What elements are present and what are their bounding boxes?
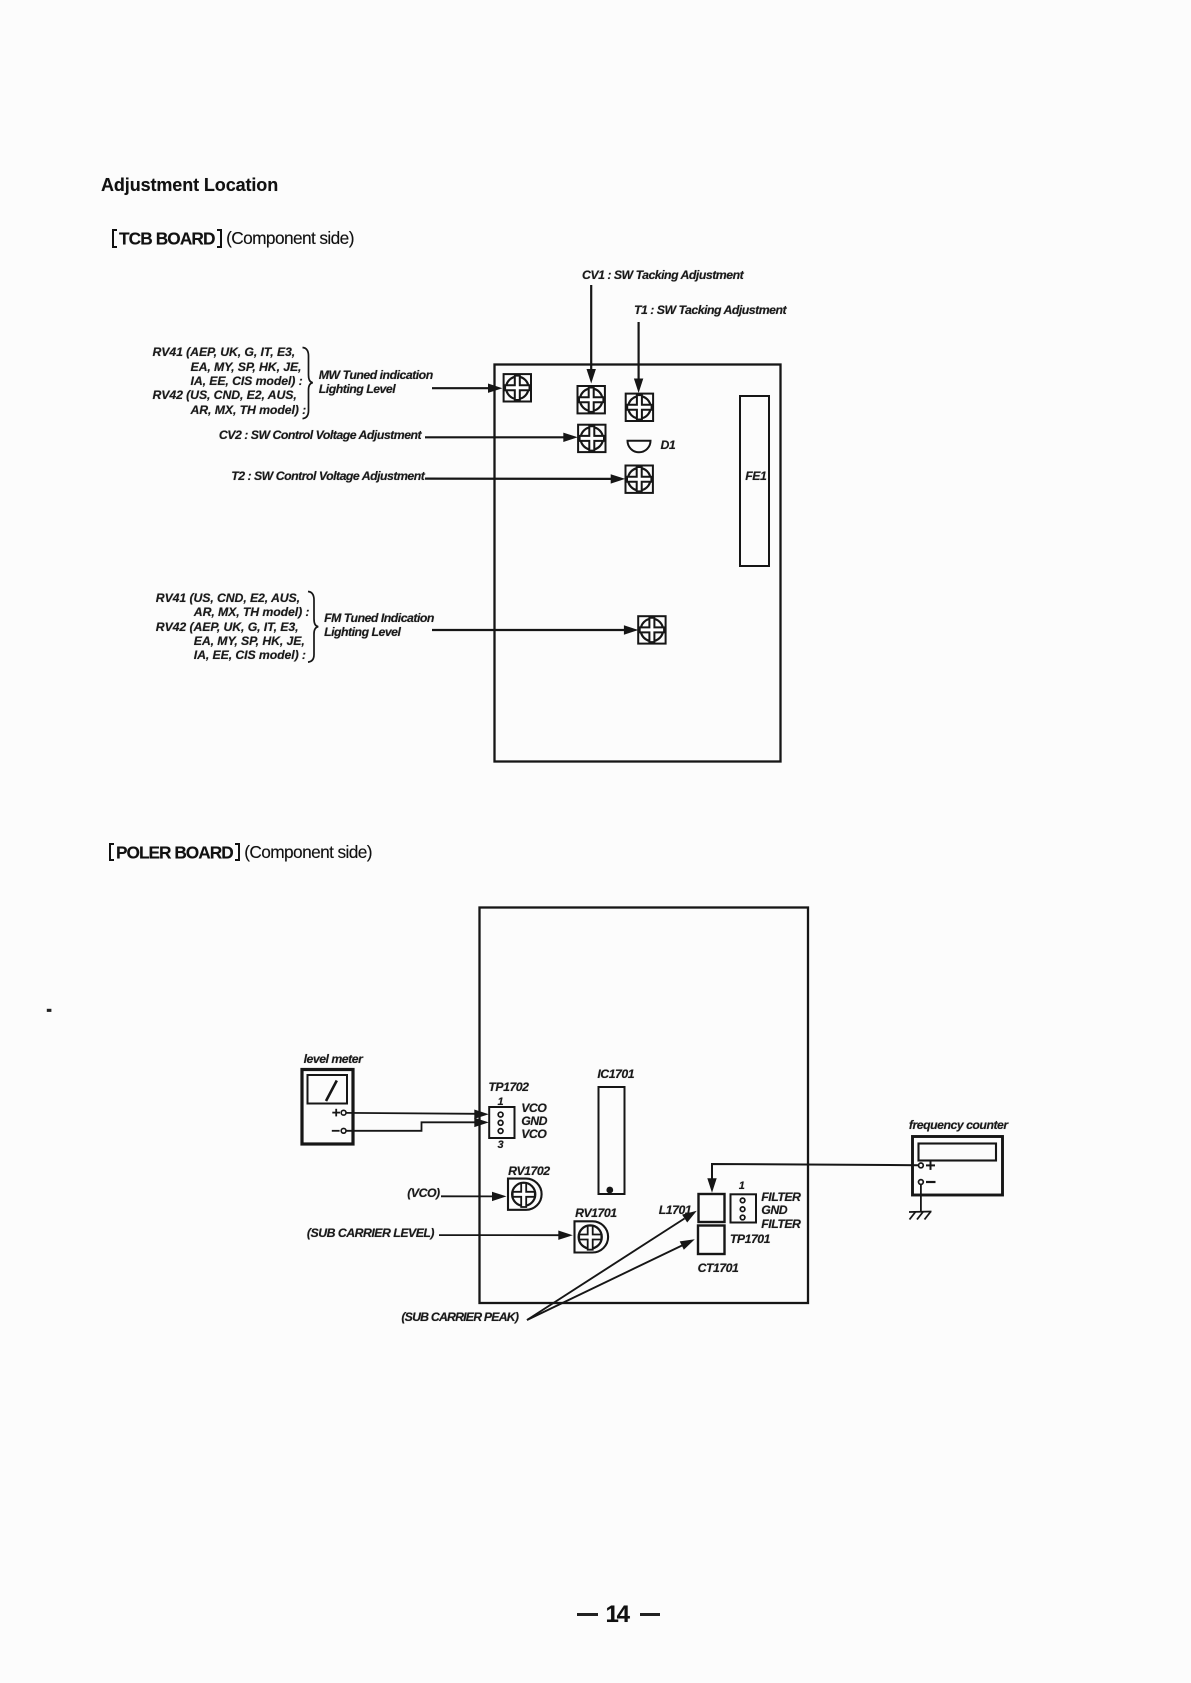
label RV1701	[575, 1206, 616, 1220]
title Adjustment Location	[101, 176, 278, 194]
label IC1701	[597, 1067, 634, 1081]
pin number 1 TP1701	[739, 1179, 745, 1193]
wire arrow T2	[425, 474, 625, 483]
ground symbol	[909, 1212, 932, 1220]
wire arrow CV1	[587, 285, 596, 384]
connector FE1	[740, 396, 769, 566]
label level meter	[304, 1052, 363, 1066]
coil L1701	[699, 1194, 725, 1222]
label T2	[231, 469, 424, 483]
trimmer capacitor CT1701	[698, 1226, 725, 1255]
pin labels VCO GND VCO	[521, 1102, 547, 1141]
brace FM model list	[308, 592, 318, 663]
label D1	[661, 438, 676, 452]
stray scan mark	[47, 1009, 52, 1012]
trimmer RV41/RV42 (FM tuned indication)	[638, 616, 665, 643]
page number 14	[577, 1603, 660, 1627]
label CV2	[219, 428, 421, 442]
section header TCB BOARD	[112, 229, 354, 248]
pin number 1 TP1702	[498, 1095, 504, 1109]
label RV1702	[508, 1164, 549, 1178]
pin number 3 TP1702	[498, 1138, 504, 1152]
section header POLER BOARD	[109, 843, 372, 862]
diode D1	[628, 441, 651, 453]
wire arrow T1	[634, 322, 643, 393]
trimmer T2	[626, 466, 653, 493]
label frequency counter	[909, 1118, 1008, 1132]
label FM Tuned Indication Lighting Level	[324, 612, 434, 639]
wire arrow (SUB CARRIER PEAK) to CT1701	[527, 1235, 697, 1320]
wire frequency counter plus to L1701	[707, 1164, 918, 1193]
wire arrow (SUB CARRIER PEAK) to L1701	[527, 1207, 699, 1320]
level meter	[302, 1070, 353, 1145]
pin labels FILTER GND FILTER	[761, 1191, 800, 1232]
label RV41/RV42 MW model list	[153, 345, 307, 417]
wire level meter minus to TP1702 pin2	[346, 1118, 489, 1131]
board outline TCB	[495, 365, 781, 762]
wire arrow MW tuned	[432, 384, 503, 393]
board outline POLER	[480, 908, 809, 1304]
label CV1	[582, 268, 743, 282]
wire arrow (SUB CARRIER LEVEL) to RV1701	[439, 1231, 573, 1240]
label TP1701	[730, 1232, 770, 1246]
trimmer CV2	[578, 425, 605, 452]
label (VCO)	[407, 1186, 439, 1200]
label T1	[634, 303, 786, 317]
wire level meter plus to TP1702 pin1	[346, 1110, 489, 1119]
trimmer RV41/RV42 (MW tuned indication)	[504, 374, 531, 401]
label (SUB CARRIER PEAK)	[401, 1310, 518, 1324]
wire frequency counter minus to ground	[920, 1185, 922, 1212]
label CT1701	[698, 1261, 739, 1275]
test point connector TP1702	[489, 1107, 514, 1138]
IC IC1701	[599, 1087, 625, 1194]
trimmer RV1701	[575, 1221, 609, 1252]
brace MW model list	[303, 348, 313, 419]
label (SUB CARRIER LEVEL)	[307, 1226, 434, 1240]
wire arrow FM tuned	[432, 625, 638, 634]
wire arrow (VCO) to RV1702	[441, 1192, 507, 1201]
wire arrow CV2	[425, 433, 578, 442]
label L1701	[659, 1203, 691, 1217]
label FE1	[745, 469, 766, 483]
test point connector TP1701	[731, 1194, 757, 1222]
trimmer RV1702	[508, 1179, 542, 1210]
label MW Tuned indication Lighting Level	[319, 368, 433, 398]
label RV41/RV42 FM model list	[156, 591, 310, 662]
frequency counter	[913, 1137, 1003, 1196]
label TP1702	[488, 1080, 528, 1094]
trimmer T1	[626, 394, 653, 421]
trimmer CV1	[578, 386, 605, 413]
